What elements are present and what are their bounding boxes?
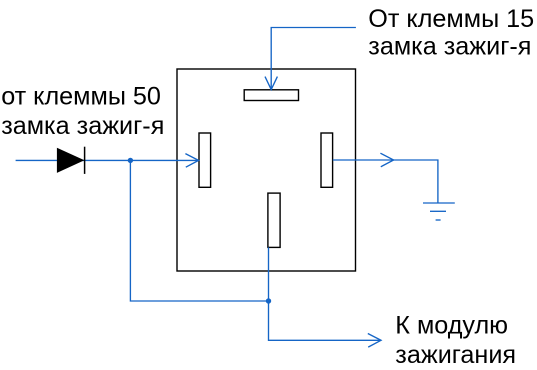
svg-text:зажигания: зажигания — [395, 341, 516, 369]
svg-text:замка зажиг-я: замка зажиг-я — [1, 112, 164, 140]
svg-text:От клеммы 15: От клеммы 15 — [368, 5, 534, 33]
svg-text:замка зажиг-я: замка зажиг-я — [368, 33, 531, 61]
svg-text:К модулю: К модулю — [395, 312, 508, 340]
svg-text:от клеммы 50: от клеммы 50 — [1, 83, 161, 111]
